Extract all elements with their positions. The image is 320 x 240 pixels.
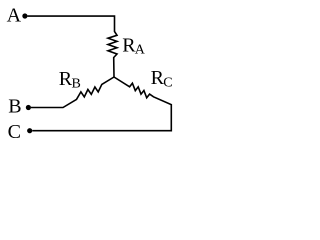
svg-text:C: C: [8, 121, 21, 143]
svg-text:A: A: [135, 42, 146, 57]
svg-text:B: B: [72, 77, 81, 92]
svg-text:B: B: [8, 96, 21, 118]
svg-text:A: A: [7, 5, 22, 27]
svg-text:C: C: [163, 75, 172, 90]
